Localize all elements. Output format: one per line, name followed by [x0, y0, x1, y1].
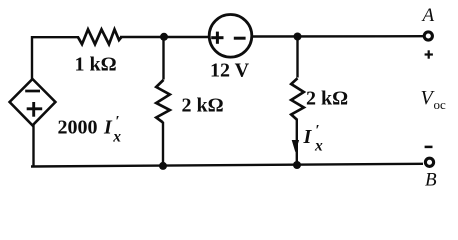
label I'x [303, 123, 324, 155]
label 1 kOhm [75, 54, 117, 76]
dependent source 2000 I'x (diamond) [10, 79, 56, 125]
svg-text:1 kΩ: 1 kΩ [75, 54, 117, 76]
label 2 kOhm right [306, 88, 348, 110]
svg-text:I: I [303, 126, 313, 148]
wire top right [252, 35, 425, 38]
label 2 kOhm middle [182, 95, 224, 117]
svg-text:12 V: 12 V [210, 60, 250, 82]
svg-text:′: ′ [116, 114, 120, 130]
wire top middle [120, 36, 210, 38]
wire left vertical upper [31, 36, 33, 80]
voltage source 12 V [209, 15, 252, 58]
label - (bottom terminal polarity) [425, 146, 433, 149]
svg-text:x: x [112, 128, 121, 145]
label Voc [421, 87, 447, 112]
label A [421, 5, 435, 26]
node dot top-right junction [294, 33, 302, 41]
svg-text:I: I [103, 117, 113, 139]
wire top-left horizontal [31, 36, 79, 38]
terminal A (open circle) [424, 32, 432, 40]
svg-text:oc: oc [434, 97, 447, 112]
svg-text:′: ′ [316, 123, 320, 139]
node dot top-left junction [160, 33, 168, 41]
svg-text:2 kΩ: 2 kΩ [306, 88, 348, 110]
terminal B (open circle) [425, 158, 433, 166]
node dot bottom-left junction [159, 162, 167, 170]
wire left vertical lower [32, 125, 34, 168]
svg-text:B: B [425, 170, 437, 191]
svg-text:2000: 2000 [58, 117, 98, 139]
resistor 1 kOhm (horizontal zigzag) [78, 29, 122, 44]
svg-text:A: A [421, 5, 435, 26]
resistor 2 kOhm middle (vertical zigzag with leads) [156, 37, 170, 167]
label 2000 I'x [58, 114, 122, 146]
svg-text:x: x [314, 137, 323, 154]
label + (top terminal polarity) [425, 50, 433, 58]
resistor 2 kOhm right (vertical zigzag with leads) [291, 37, 304, 167]
svg-text:2 kΩ: 2 kΩ [182, 95, 224, 117]
label B [425, 170, 437, 191]
label 12 V [210, 60, 250, 82]
node dot bottom-right junction [293, 161, 301, 169]
wire bottom [31, 164, 423, 167]
current arrow I'x [292, 140, 299, 152]
